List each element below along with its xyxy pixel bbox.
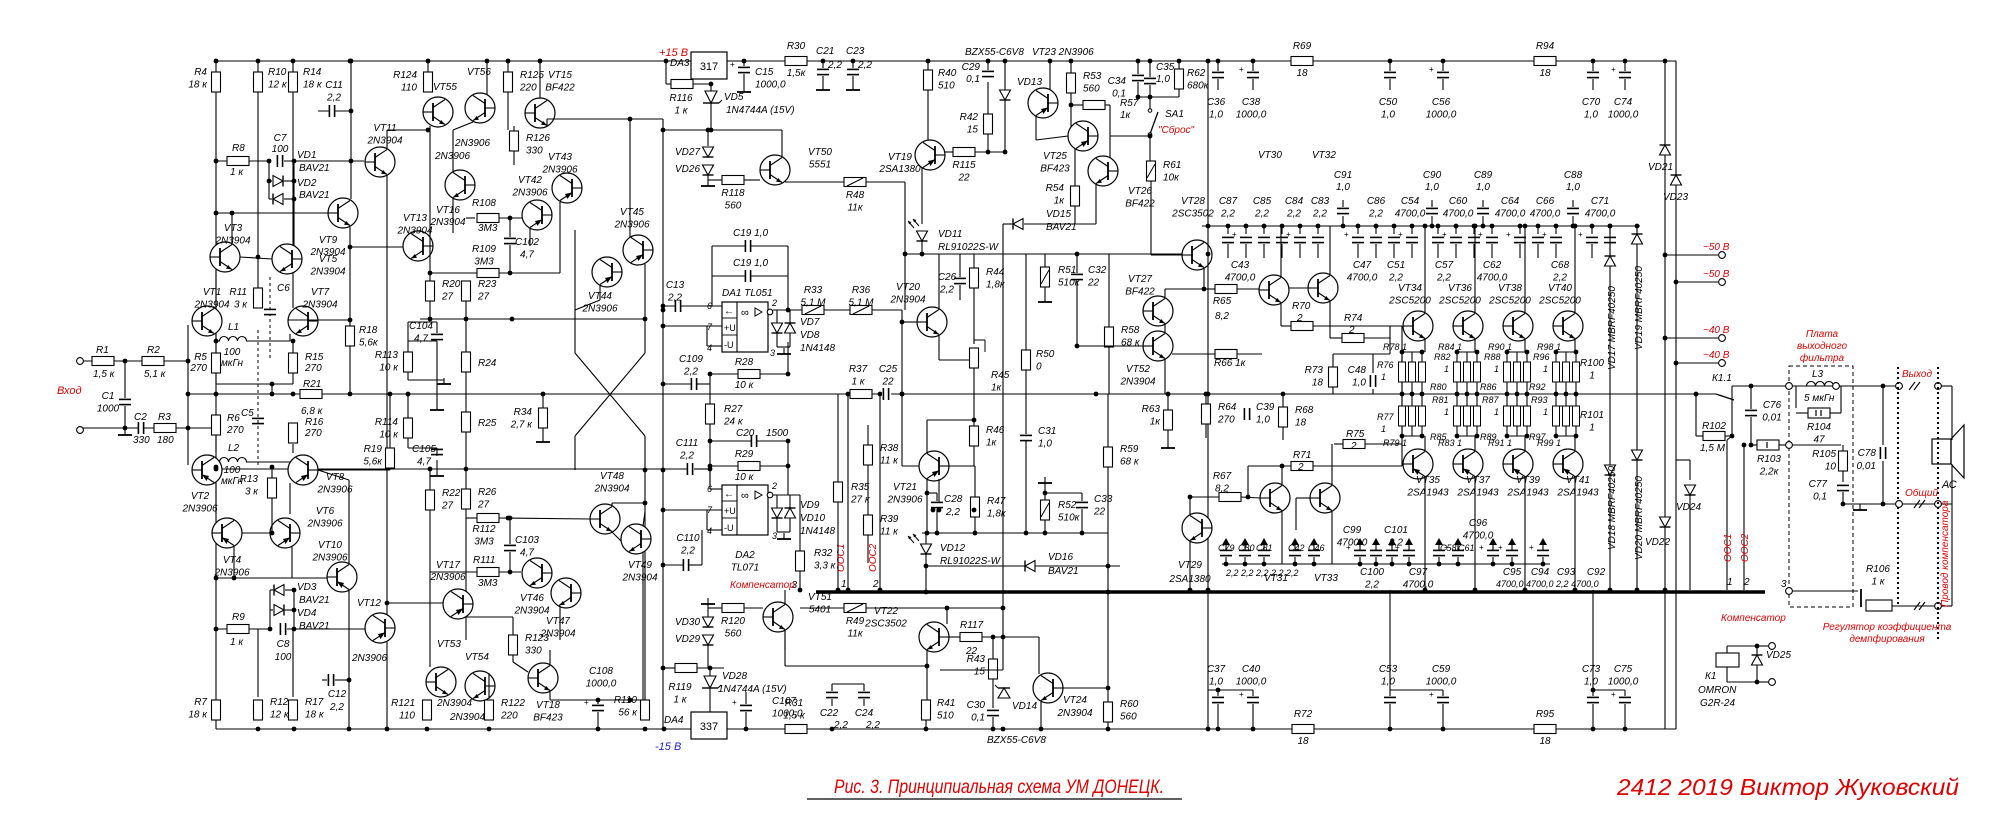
svg-text:2,2: 2,2 — [1388, 273, 1403, 284]
svg-text:+: + — [1239, 690, 1244, 699]
svg-text:C93: C93 — [1557, 567, 1576, 578]
capacitor C50 — [1384, 72, 1396, 78]
wire R59 bottom — [1107, 467, 1109, 660]
capacitor C56 — [1429, 65, 1449, 78]
wire R54 top — [1074, 149, 1076, 186]
svg-text:R92: R92 — [1529, 382, 1546, 392]
wire C103 up — [509, 518, 511, 544]
capacitor C89 — [1477, 208, 1489, 214]
svg-text:C43: C43 — [1231, 260, 1250, 271]
svg-text:VT16: VT16 — [436, 205, 460, 216]
junction y130 — [661, 128, 714, 133]
capacitor lbank4 — [1308, 550, 1320, 556]
svg-text:VT51: VT51 — [808, 592, 832, 603]
wire C102 down — [509, 245, 511, 273]
wire bank cap tail — [1317, 244, 1319, 258]
svg-text:337: 337 — [700, 721, 718, 733]
capacitor C102 — [504, 238, 516, 244]
resistor R13 — [268, 478, 277, 498]
wire R26 down — [465, 509, 467, 640]
wire C32 top — [1076, 254, 1078, 273]
transistor VT30 — [1259, 275, 1289, 305]
wire 40V-B — [1676, 362, 1718, 364]
wire lbank stem — [1225, 557, 1227, 564]
svg-text:BF423: BF423 — [533, 713, 563, 724]
wire dashed C5 link — [257, 330, 259, 465]
svg-text:1,0: 1,0 — [1566, 182, 1580, 193]
svg-text:R30: R30 — [787, 41, 806, 52]
resistor R37 — [850, 390, 872, 399]
svg-text:R110: R110 — [614, 695, 638, 706]
resistor R64 — [1202, 404, 1211, 424]
wire R125 bottom — [507, 92, 509, 130]
wire VT22 collector — [946, 608, 948, 624]
junction OOC2 tap — [1742, 443, 1747, 448]
transistor VT38 — [1503, 311, 1533, 341]
wire VD24 link — [1676, 459, 1690, 461]
wire bank cap stem — [1437, 226, 1439, 234]
wire VD30 top — [707, 604, 709, 617]
svg-text:1,0: 1,0 — [1209, 677, 1223, 688]
junction x645 dots — [214, 308, 666, 568]
wire C23 stub — [852, 76, 854, 84]
capacitor C53 — [1384, 697, 1396, 703]
trim resistor R45 — [970, 340, 986, 368]
junction C90 — [1430, 224, 1435, 229]
wire y130 row — [663, 129, 782, 131]
wire VD1 left — [269, 180, 272, 182]
wire lbank stem — [1492, 557, 1494, 564]
transistor VT3 — [210, 242, 240, 272]
svg-text:АС: АС — [1941, 479, 1957, 491]
svg-text:R87: R87 — [1482, 395, 1500, 405]
wire top +supply rail — [216, 60, 1676, 62]
wire bank cap stem — [1455, 226, 1457, 234]
wire bank tie bottom — [1457, 435, 1477, 437]
input terminal top — [77, 358, 84, 365]
svg-text:270: 270 — [189, 363, 207, 374]
wire C109 left — [663, 383, 691, 385]
wire to K1 term1 — [1757, 645, 1768, 647]
wire bank tie mid2 — [1457, 405, 1477, 407]
svg-text:0,1: 0,1 — [1813, 492, 1827, 503]
svg-text:2SA1943: 2SA1943 — [1506, 488, 1549, 499]
svg-text:VT17: VT17 — [436, 560, 460, 571]
ground C15 — [737, 86, 751, 92]
wire R108 right — [499, 217, 530, 219]
svg-text:1000: 1000 — [97, 404, 120, 415]
svg-text:2N3906: 2N3906 — [306, 519, 342, 530]
wire C53 top — [1389, 690, 1391, 696]
wire OOC2 drop — [879, 394, 881, 590]
capacitor bank0 — [1222, 237, 1234, 243]
svg-text:Рис. 3. Принципиальная схема У: Рис. 3. Принципиальная схема УМ ДОНЕЦК. — [834, 777, 1164, 798]
svg-text:2,2: 2,2 — [1254, 209, 1269, 220]
svg-text:2: 2 — [1350, 441, 1357, 452]
diode VD24 body — [1685, 485, 1696, 495]
svg-text:VT20: VT20 — [896, 282, 920, 293]
svg-text:R48: R48 — [846, 190, 865, 201]
resistor R46 — [970, 426, 979, 446]
resistor R54 — [1071, 186, 1080, 206]
wire R32 bottom — [799, 571, 801, 590]
diode VD30 — [703, 617, 714, 627]
svg-text:3М3: 3М3 — [478, 578, 498, 589]
wire R103 right — [1779, 444, 1786, 446]
resistor R73 — [1329, 367, 1338, 387]
svg-text:1000,0: 1000,0 — [1608, 677, 1639, 688]
svg-text:0,01: 0,01 — [1762, 413, 1781, 424]
underline title — [807, 798, 1182, 800]
svg-text:VT11: VT11 — [373, 123, 396, 134]
resistor R44 — [970, 268, 979, 288]
svg-text:VT26: VT26 — [1128, 186, 1152, 197]
transistor VT42 — [522, 200, 552, 230]
svg-text:1: 1 — [1444, 407, 1449, 417]
junction R63 R64 — [1094, 392, 1286, 397]
svg-text:VD18 MBRF40250: VD18 MBRF40250 — [1607, 466, 1618, 550]
wire C29 top — [987, 61, 989, 70]
capacitor C30 — [987, 710, 999, 716]
svg-text:C25: C25 — [879, 364, 898, 375]
svg-text:R116: R116 — [669, 93, 693, 104]
resistor bank group2 — [1524, 362, 1531, 382]
wire VD15 left — [1003, 223, 1012, 225]
wire R19 to VT8 — [318, 469, 390, 471]
svg-text:R7: R7 — [194, 697, 207, 708]
junction VT10 base — [214, 576, 237, 581]
wire y666 row — [890, 665, 927, 667]
wire R24 top — [465, 319, 467, 352]
resistor R1 — [92, 357, 114, 366]
svg-text:12 к: 12 к — [268, 80, 288, 91]
svg-text:VT30: VT30 — [1258, 150, 1282, 161]
wire base col row1 — [1401, 326, 1403, 466]
wire R34 gnd — [542, 428, 544, 436]
svg-text:C35: C35 — [1156, 62, 1175, 73]
wire y319 row — [420, 318, 645, 320]
svg-text:12 к: 12 к — [270, 710, 290, 721]
svg-text:R47: R47 — [987, 496, 1006, 507]
wire R63 top — [1167, 394, 1169, 410]
svg-text:C88: C88 — [1564, 170, 1583, 181]
transistor VT4 — [212, 518, 242, 548]
resistor R8 — [227, 157, 249, 166]
svg-text:1: 1 — [1727, 577, 1733, 588]
svg-text:2N3904: 2N3904 — [193, 300, 229, 311]
capacitor C24 — [858, 692, 870, 698]
ground VD9 VD10 — [777, 533, 791, 539]
svg-text:4700,0: 4700,0 — [1347, 273, 1378, 284]
wire dashed C6 link — [269, 277, 271, 358]
wire R22 to VT53 — [429, 510, 431, 667]
svg-text:2,2: 2,2 — [857, 60, 872, 71]
svg-text:L1: L1 — [228, 322, 239, 333]
wire C35 bottom — [1149, 85, 1151, 109]
wire VT43 emitter down — [559, 202, 561, 273]
wire C12 right — [335, 679, 349, 681]
junction C91 — [1341, 224, 1346, 229]
terminal 40V-A — [1719, 335, 1726, 342]
junction VD16 R59 — [1106, 564, 1111, 595]
wire C104 link — [408, 340, 437, 342]
svg-text:2N3906: 2N3906 — [213, 568, 249, 579]
terminal Выход2 — [1935, 383, 1942, 390]
svg-text:C15: C15 — [755, 67, 774, 78]
wire VT33 base stub — [1296, 497, 1310, 499]
svg-text:RL91022S-W: RL91022S-W — [938, 242, 1000, 253]
ground C105 — [430, 470, 444, 476]
svg-text:+: + — [1286, 230, 1291, 239]
svg-text:2412 2019 Виктор Жуковский: 2412 2019 Виктор Жуковский — [1616, 774, 1959, 800]
wire C26 top — [959, 254, 961, 277]
svg-text:~40 В: ~40 В — [1703, 350, 1730, 361]
wire C7 right — [284, 160, 364, 162]
junction VT12 — [385, 601, 390, 732]
ground R34 — [536, 436, 550, 442]
resistor bank group1 — [1464, 362, 1471, 382]
svg-text:C66: C66 — [1536, 196, 1555, 207]
capacitor C105 — [431, 449, 443, 455]
svg-text:18 к: 18 к — [305, 710, 325, 721]
wire bank cap stem — [1473, 226, 1475, 234]
svg-text:C6: C6 — [277, 283, 290, 294]
junction filter — [1841, 384, 1886, 507]
svg-text:2,2: 2,2 — [679, 451, 694, 462]
wire diode left col — [268, 161, 270, 199]
capacitor bank2 — [1258, 237, 1270, 243]
svg-text:2N3906: 2N3906 — [541, 165, 577, 176]
transistor VT46 — [522, 558, 552, 588]
wire R57 left — [1071, 104, 1083, 106]
wire contact tip — [1731, 386, 1733, 391]
svg-text:+: + — [1232, 230, 1237, 239]
wire VT37 emitter up — [1474, 436, 1476, 451]
wire bank tie mid2 — [1507, 405, 1527, 407]
svg-text:0,1: 0,1 — [971, 713, 985, 724]
svg-text:2N3904: 2N3904 — [513, 606, 549, 617]
svg-text:3М3: 3М3 — [474, 257, 494, 268]
svg-text:VT48: VT48 — [600, 471, 624, 482]
svg-text:R94: R94 — [1536, 41, 1555, 52]
capacitor C22 — [826, 692, 838, 698]
wire C90 stem — [1431, 216, 1433, 226]
wire C107 bottom — [745, 712, 747, 729]
svg-text:VD2: VD2 — [297, 178, 317, 189]
wire C19a loop — [712, 245, 788, 247]
wire lbank stem — [1244, 557, 1246, 564]
svg-text:5551: 5551 — [809, 160, 831, 171]
wire VT50 to R48 — [785, 181, 844, 183]
wire R36 drop — [901, 310, 903, 394]
junction R27 col — [708, 372, 791, 469]
capacitor bank3 — [1276, 237, 1288, 243]
svg-text:1к: 1к — [1150, 417, 1162, 428]
capacitor bank8 — [1388, 237, 1400, 243]
svg-text:0,01: 0,01 — [1857, 461, 1876, 472]
wire R49 right — [866, 607, 1003, 609]
svg-text:DA3: DA3 — [670, 58, 690, 69]
svg-text:R40: R40 — [938, 68, 957, 79]
svg-text:1к: 1к — [986, 438, 998, 449]
wire R64 bottom — [1205, 424, 1207, 438]
wire R42 top — [987, 82, 989, 114]
svg-text:R33: R33 — [804, 285, 823, 296]
wire mid signal bus — [188, 393, 1716, 395]
inductor L3 — [1807, 382, 1834, 387]
wire VT8 down — [289, 483, 291, 514]
arrow lbank — [1388, 538, 1396, 550]
junction VT21 — [900, 392, 977, 513]
svg-text:R17: R17 — [305, 697, 324, 708]
junction VT36 coll — [1473, 224, 1478, 229]
wire to VT12 — [287, 628, 365, 630]
wire K1 row top — [1727, 645, 1757, 647]
wire R8 row — [216, 160, 268, 162]
svg-text:BZX55-C6V8: BZX55-C6V8 — [965, 47, 1024, 58]
wire C33 top — [1081, 493, 1083, 501]
capacitor bank10 — [1432, 237, 1444, 243]
wire X col left lower — [574, 436, 576, 470]
wire VT40 emitter — [1574, 339, 1576, 352]
wire R114 top — [407, 394, 409, 418]
wire VT16-VT13 — [452, 198, 454, 233]
wire C22 top — [831, 684, 833, 691]
wire 50V-B — [1676, 281, 1718, 283]
arrow lbank — [1372, 538, 1380, 550]
resistor R109 — [477, 269, 499, 278]
svg-text:1000,0: 1000,0 — [1236, 110, 1267, 121]
wire R43 top — [992, 637, 994, 659]
resistor R108 — [477, 214, 499, 223]
svg-text:C20: C20 — [736, 428, 755, 439]
svg-text:C68: C68 — [1551, 260, 1570, 271]
wire R62 down — [1178, 89, 1180, 97]
resistor R62 — [1175, 69, 1184, 89]
wire right vertical rail B — [1675, 61, 1677, 729]
wire VT45 collector up — [629, 119, 631, 237]
wire bank tie mid2 — [1556, 405, 1576, 407]
transistor VT52 — [1143, 331, 1173, 361]
svg-text:R124: R124 — [393, 70, 417, 81]
svg-text:R98 1: R98 1 — [1537, 342, 1561, 352]
svg-text:4: 4 — [707, 526, 712, 536]
wire R41 top — [925, 699, 927, 701]
svg-text:2,2: 2,2 — [1312, 209, 1327, 220]
wire C37 bottom — [1217, 704, 1219, 729]
wire R120 right — [744, 607, 763, 609]
transistor VT7 — [288, 306, 318, 336]
wire VD25 top — [1756, 646, 1758, 655]
svg-text:R60: R60 — [1120, 699, 1139, 710]
svg-text:2N3904: 2N3904 — [436, 698, 472, 709]
junction lbank dots — [1224, 562, 1546, 567]
wire bank cap tail — [1455, 244, 1457, 258]
resistor R69 — [1291, 57, 1313, 66]
wire R103 left — [1751, 444, 1757, 446]
wire VT18 collector — [549, 650, 551, 665]
wire VT51 emitter row — [785, 665, 890, 667]
wire C53 bottom — [1389, 704, 1391, 729]
svg-text:R85: R85 — [1430, 432, 1448, 442]
svg-text:L3: L3 — [1812, 369, 1824, 380]
resistor R12 — [254, 700, 263, 720]
wire R10 column — [257, 61, 259, 288]
wire left vertical bus — [215, 61, 217, 729]
resistor R25 — [462, 412, 471, 432]
capacitor lbank5 — [1346, 543, 1366, 556]
wire C21 top — [822, 61, 824, 68]
svg-text:2N3904: 2N3904 — [309, 247, 345, 258]
wire R5 top — [215, 341, 217, 353]
svg-text:1 к: 1 к — [1871, 577, 1885, 588]
wire DA2 pin4 — [707, 529, 722, 531]
svg-text:11к: 11к — [847, 629, 863, 640]
svg-text:R114: R114 — [375, 417, 399, 428]
svg-text:C48: C48 — [1348, 365, 1367, 376]
svg-text:VT9: VT9 — [319, 235, 338, 246]
junction VT38 coll — [1523, 224, 1528, 229]
svg-text:C103: C103 — [515, 535, 539, 546]
diode VD10 — [785, 508, 796, 518]
wire K1 bottom — [1726, 667, 1728, 682]
wire VT27 collector up — [1164, 289, 1166, 298]
wire C88 stem — [1572, 216, 1574, 226]
resistor R66 — [1215, 350, 1237, 359]
svg-text:←: ← — [724, 489, 734, 500]
wire R62 top — [1178, 61, 1180, 69]
svg-text:R9: R9 — [232, 612, 245, 623]
wire VT49 emitter down — [642, 552, 644, 700]
svg-text:1,0: 1,0 — [1352, 378, 1366, 389]
svg-text:2,2к: 2,2к — [1759, 467, 1780, 478]
wire R102 left — [1696, 435, 1703, 437]
svg-text:4700,0: 4700,0 — [1225, 273, 1256, 284]
svg-text:18: 18 — [1295, 418, 1307, 429]
wire thick compensation bus — [816, 590, 1765, 593]
svg-text:27: 27 — [441, 292, 454, 303]
wire x1003 vertical — [1002, 224, 1004, 670]
wire to speaker — [1941, 385, 1952, 387]
diode VD4 — [274, 605, 284, 616]
wire VT51 collector — [784, 590, 786, 604]
svg-text:1: 1 — [1589, 423, 1595, 434]
resistor R10 — [254, 72, 263, 92]
break comp — [1914, 602, 1925, 610]
wire R23 down — [465, 301, 467, 319]
resistor R59 — [1104, 447, 1113, 467]
svg-text:VD24: VD24 — [1676, 502, 1701, 513]
wire bank tie mid1 — [1556, 381, 1576, 383]
junction R102 — [1730, 434, 1754, 448]
wire VD19 column — [1636, 226, 1638, 590]
wire R57 to VT26 — [1109, 105, 1111, 136]
svg-text:VT54: VT54 — [465, 652, 489, 663]
resistor bank group1 — [1454, 362, 1461, 382]
svg-text:R79 1: R79 1 — [1383, 438, 1407, 448]
capacitor C12 — [328, 674, 334, 686]
svg-text:2,2: 2,2 — [1368, 209, 1383, 220]
wire R65 right — [1237, 288, 1259, 290]
wire C11 row — [318, 110, 351, 112]
svg-text:510: 510 — [937, 711, 954, 722]
wire C1 stem — [124, 361, 126, 398]
capacitor C103 — [504, 545, 516, 551]
junction VD11 — [903, 252, 925, 257]
resistor bank group1 — [1474, 362, 1481, 382]
wire R53 top — [1070, 61, 1072, 73]
wire speaker bottom — [1951, 464, 1953, 504]
